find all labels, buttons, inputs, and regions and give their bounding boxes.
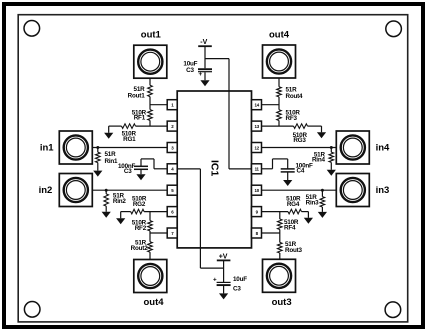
svg-text:RF1: RF1: [134, 115, 146, 122]
svg-text:10uF: 10uF: [233, 276, 247, 283]
svg-text:+: +: [199, 71, 203, 78]
svg-text:11: 11: [255, 167, 260, 172]
svg-text:in2: in2: [39, 185, 53, 196]
svg-text:RF3: RF3: [286, 115, 298, 122]
svg-text:in4: in4: [376, 142, 390, 153]
svg-text:Rin1: Rin1: [105, 158, 119, 165]
svg-text:Rin4: Rin4: [312, 157, 326, 164]
svg-text:RG1: RG1: [123, 136, 136, 143]
svg-text:13: 13: [254, 124, 259, 129]
svg-text:RG3: RG3: [293, 137, 306, 144]
svg-text:RG4: RG4: [287, 201, 300, 208]
svg-text:Rin3: Rin3: [306, 200, 320, 207]
svg-text:C3: C3: [233, 285, 241, 292]
svg-text:12: 12: [254, 145, 259, 150]
svg-text:out4: out4: [143, 297, 164, 308]
svg-text:C3: C3: [124, 168, 132, 175]
svg-text:Rout1: Rout1: [128, 93, 146, 100]
svg-text:Rout2: Rout2: [131, 245, 149, 252]
svg-text:C4: C4: [297, 168, 305, 175]
svg-text:RF4: RF4: [284, 225, 296, 232]
svg-text:IC1: IC1: [209, 160, 221, 177]
svg-text:out1: out1: [141, 29, 162, 40]
svg-text:14: 14: [254, 103, 259, 108]
svg-text:out4: out4: [269, 29, 290, 40]
svg-text:Rin2: Rin2: [113, 198, 127, 205]
svg-text:Rout4: Rout4: [286, 93, 304, 100]
svg-text:in3: in3: [376, 185, 390, 196]
svg-text:-V: -V: [200, 39, 207, 46]
svg-text:RG2: RG2: [133, 201, 146, 208]
svg-text:Rout3: Rout3: [285, 247, 303, 254]
svg-text:+: +: [213, 276, 217, 283]
svg-text:C3: C3: [186, 67, 194, 74]
svg-text:out3: out3: [272, 297, 292, 308]
svg-text:RF2: RF2: [135, 225, 147, 232]
svg-text:in1: in1: [40, 142, 54, 153]
svg-text:10: 10: [254, 188, 259, 193]
